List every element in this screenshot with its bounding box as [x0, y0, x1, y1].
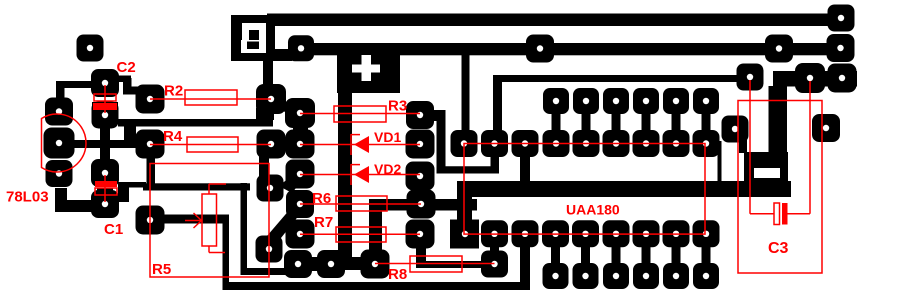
wire plus block down to LED pad row [338, 93, 352, 258]
wire third bus to C3 plus [493, 75, 751, 131]
wire R3 pad to pin2 [431, 110, 499, 174]
pad node B [256, 236, 283, 263]
wire cross junction [72, 127, 150, 159]
via top LED row x556 [543, 88, 569, 114]
pad R4 left [136, 130, 165, 159]
pad top right 1 [828, 5, 855, 32]
wire C1 bottom to rail bar [118, 182, 146, 202]
pad R6 left [286, 190, 314, 218]
wire top supply bus [267, 14, 839, 27]
capacitor C3 [750, 80, 810, 257]
pad 78L03 pin1 [45, 98, 73, 126]
pad spare right [812, 114, 840, 142]
svg-text:R5: R5 [152, 261, 171, 278]
pad top-left mounting [77, 35, 104, 62]
pad 78L03 pin3 [46, 160, 73, 187]
pad C2 bottom [92, 102, 119, 129]
pad bottom LED 2 [317, 250, 345, 278]
via top LED row x676 [663, 88, 689, 114]
svg-text:R6: R6 [312, 190, 331, 207]
svg-text:C2: C2 [117, 59, 136, 76]
wire via neck x556 [552, 101, 561, 143]
pad R7 right [406, 220, 435, 249]
pad VD2 left [286, 160, 315, 189]
wire C2 top to R2 pad [112, 76, 139, 95]
svg-text:UAA180: UAA180 [566, 202, 620, 218]
pad R4 right [257, 130, 286, 159]
wire via neck bottom x706 [702, 233, 711, 276]
wire link VD2 left to pad [279, 177, 300, 193]
wire neck R2R-R3L [276, 98, 292, 114]
pad UAA180 pin 6 [603, 220, 630, 247]
via bottom LED row x706 [693, 263, 719, 289]
minus sign cutout [754, 168, 780, 178]
pad UAA180 pin 10 [693, 130, 720, 157]
pad R2 right [256, 84, 286, 114]
pad UAA180 pin 12 [633, 130, 660, 157]
via R8 right [481, 251, 508, 278]
capacitor C1 [95, 175, 123, 238]
wire stub bar to pin1 pad [457, 181, 472, 226]
resistor R7 [300, 214, 420, 242]
via bottom LED row x676 [663, 263, 689, 289]
label 78L03 [6, 189, 49, 206]
pad UAA180 pin 7 [633, 220, 660, 247]
pad UAA180 pin 17 [481, 130, 508, 157]
wire vertical a-block to R2 right pad [263, 60, 273, 90]
pad holes [56, 15, 845, 279]
wire C2 electrode black bar [92, 102, 118, 110]
pad R8 left [361, 250, 390, 279]
pad bus2 mid [526, 35, 554, 63]
pad C3 plus [737, 64, 764, 91]
wire link bottom LED pads 1 [300, 257, 331, 271]
wire diagonal R6 left to pad below [267, 208, 300, 243]
wire link bottom LED pads 2 [331, 257, 375, 270]
plus sign cutout [352, 55, 380, 81]
pad 78L03 pin2 [44, 128, 75, 159]
pad UAA180 pin 18 [451, 130, 478, 157]
pad UAA180 pin 4 [542, 220, 569, 247]
wire pin1 top to bus2 [462, 54, 470, 132]
capacitor C3 outline box [738, 101, 822, 274]
wire via neck bottom x676 [672, 233, 681, 276]
plus terminal block [337, 53, 400, 93]
pad R5 left [136, 206, 165, 235]
wire via neck x676 [672, 101, 681, 143]
regulator 78L03 outline [42, 114, 87, 172]
wire via neck bottom x585.5 [581, 233, 590, 276]
capacitor C2 [93, 59, 136, 113]
svg-text:R8: R8 [388, 266, 407, 283]
pad R6 right [407, 190, 436, 219]
wire via neck bottom x555.5 [551, 233, 560, 276]
pad UAA180 pin 13 [603, 130, 630, 157]
wire thick rail C2 bottom to R2 right pad [118, 119, 273, 127]
resistor R6 [300, 190, 421, 211]
pad C3 minus [795, 63, 825, 93]
wire bar2 pin1 to LED pads [369, 199, 477, 251]
wire R4 pad stub down [147, 157, 156, 184]
wire via neck x616 [612, 101, 621, 143]
trimmer R5 symbol [185, 184, 226, 253]
wire cross up to rail [124, 126, 136, 148]
pad VD1 left [286, 130, 315, 159]
pad bottom LED 1 [284, 250, 312, 278]
svg-text:VD1: VD1 [374, 129, 401, 145]
svg-text:R7: R7 [314, 214, 333, 231]
diode VD2 [300, 161, 420, 185]
wire R5 pad to bottom bus [160, 215, 530, 291]
wire R2R pad to rail [256, 108, 274, 120]
wire via neck pin2 [490, 233, 499, 264]
pad VD2 right [406, 162, 435, 191]
via top LED row x706 [693, 88, 719, 114]
wire C1 electrode black bar [97, 189, 113, 193]
wire thick bar to minus block [457, 181, 791, 197]
svg-text:C1: C1 [104, 221, 123, 238]
pad R3 right [406, 101, 434, 129]
pad UAA180 pin 9 [693, 220, 720, 247]
pad R7 left [286, 220, 315, 249]
wire stub pin3 top to bar [520, 156, 530, 182]
via top LED row x646 [633, 88, 659, 114]
pad R3 left [285, 98, 315, 128]
pad C1 top [91, 159, 119, 187]
svg-text:C3: C3 [768, 240, 789, 257]
svg-text:78L03: 78L03 [6, 189, 49, 206]
resistor R2 [150, 83, 271, 106]
pad logo output [288, 35, 314, 61]
pad UAA180 pin 1 (square) [450, 220, 479, 249]
via bottom LED row x616 [603, 263, 629, 289]
wire vertical from right bar to minus block [769, 86, 788, 153]
pad top right 2 [827, 34, 855, 62]
wire output rail horizontal [143, 183, 250, 190]
pad UAA180 pin 5 [572, 220, 599, 247]
wire R7 right pad down to pin2 via [416, 242, 482, 268]
via bottom LED row x585.5 [573, 263, 599, 289]
wire stub pin3 bottom to bus [520, 247, 530, 287]
pad UAA180 pin 8 [663, 220, 690, 247]
diode VD1 [300, 129, 420, 155]
wire right top bar [773, 71, 857, 87]
pad R2 left [136, 85, 165, 114]
pad bus2 right [765, 35, 793, 63]
resistor R3 [300, 98, 420, 123]
pad right bar end [828, 64, 857, 93]
wire via neck bottom x646 [642, 233, 651, 276]
wire via neck x586 [582, 101, 591, 143]
pad UAA180 pin 15 [543, 130, 570, 157]
pad near minus block [722, 116, 749, 143]
svg-text:R3: R3 [388, 98, 407, 115]
wire via neck x706 [702, 101, 711, 143]
pad UAA180 pin 2 [481, 220, 508, 247]
pad UAA180 pin 14 [573, 130, 600, 157]
logo letter a [241, 23, 266, 53]
pad UAA180 pin 3 [512, 220, 539, 247]
resistor R8 [375, 256, 495, 283]
wire via neck x646 [642, 101, 651, 143]
logo block [231, 15, 292, 61]
wire link R4 right to pad below [259, 153, 269, 178]
wire second supply bus [301, 43, 839, 55]
pad C2 top [91, 69, 119, 97]
wire 78L03 pin3 to C1 bottom [55, 188, 95, 212]
wire 78L03 pin1 link [56, 81, 92, 100]
pad UAA180 pin 16 [512, 130, 539, 157]
wire stub pin10 to bar [718, 141, 722, 183]
pad VD1 right [406, 130, 435, 159]
IC UAA180 outline [464, 144, 705, 235]
pad node A [257, 175, 284, 202]
trimmer R5 outline box [150, 164, 269, 279]
via bottom LED row x646 [633, 263, 659, 289]
svg-text:VD2: VD2 [374, 161, 401, 177]
pad C1 bottom [91, 190, 119, 218]
wire via neck bottom x616 [612, 233, 621, 276]
via bottom LED row x555.5 [543, 263, 569, 289]
via top LED row x586 [573, 88, 599, 114]
wire output rail down right [241, 183, 291, 275]
wire stub pad735 to bar [739, 139, 747, 153]
resistor R4 [150, 128, 271, 152]
minus terminal block [744, 152, 788, 197]
svg-text:R4: R4 [163, 128, 183, 145]
svg-text:R2: R2 [164, 83, 183, 100]
pad UAA180 pin 11 [663, 130, 690, 157]
wire neck R3L-VD1L [293, 124, 308, 136]
via top LED row x616 [603, 88, 629, 114]
